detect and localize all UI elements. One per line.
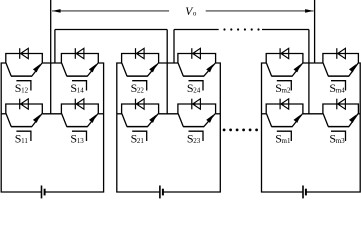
transistor of S11 (bar, collector/emitter diagonals, arrow) — [6, 114, 42, 127]
IGBT switch S21 unit frame wires — [122, 104, 159, 114]
transistor of S22 (bar, collector/emitter diagonals, arrow) — [122, 63, 159, 76]
cell 3 upper mid junction wire (phase node) — [303, 62, 323, 64]
gate lead of Sm2 — [277, 81, 292, 91]
cell 1 output node B riser wire — [54, 30, 56, 64]
IGBT switch S22 unit frame wires — [122, 54, 159, 64]
cell 3 right leg to lower-right switch stub wire — [358, 113, 360, 115]
gate lead of S11 — [16, 131, 31, 141]
cell 3 lower mid junction wire — [303, 113, 323, 115]
cell 3 output node B riser wire — [314, 0, 316, 63]
gate lead of S23 — [189, 131, 204, 141]
cell 2 output node B riser wire — [173, 30, 175, 64]
IGBT switch Sm3 unit frame wires — [323, 104, 359, 114]
anti-parallel diode of S21 — [136, 99, 145, 110]
cell 3 left leg to lower-left switch stub wire — [262, 113, 267, 115]
gate lead of S13 — [72, 131, 87, 141]
cell 2 lower mid junction wire — [159, 113, 178, 115]
battery of cell 2: short negative plate — [162, 189, 164, 196]
battery of cell 3: short negative plate — [305, 189, 307, 196]
transistor of Sm4 (bar, collector/emitter diagonals, arrow) — [323, 63, 358, 76]
transistor of S13 (bar, collector/emitter diagonals, arrow) — [62, 114, 99, 127]
transistor of S14 (bar, collector/emitter diagonals, arrow) — [62, 63, 99, 76]
transistor of Sm1 (bar, collector/emitter diagonals, arrow) — [266, 114, 302, 127]
cell 2 left leg to lower-left switch stub wire — [117, 113, 122, 115]
gate lead of S12 — [16, 81, 31, 91]
Vo dimension line right segment — [206, 10, 314, 12]
gate lead of Sm1 — [277, 131, 292, 141]
svg-text:o: o — [193, 10, 197, 18]
series link wire: cell 1 node B to cell 2 node A — [55, 29, 167, 31]
series link wire: solid part entering cell m node A — [262, 29, 309, 31]
gate lead of S24 — [189, 81, 204, 91]
cell 1 upper mid junction wire (phase node) — [42, 62, 61, 64]
dimension line right arrowhead — [305, 9, 314, 13]
gate lead of Sm3 — [331, 131, 346, 141]
svg-text:m3: m3 — [336, 137, 345, 145]
battery (DC source) of cell 1: long positive plate — [41, 186, 43, 199]
dotted continuation between cell 2 and cell m (middle row) — [223, 129, 258, 132]
cell 3 output node A riser wire — [308, 30, 310, 114]
Vo dimension line left segment — [52, 10, 169, 12]
dotted continuation of series link wire — [223, 28, 259, 30]
gate lead of Sm4 — [331, 81, 346, 91]
svg-text:11: 11 — [21, 137, 28, 145]
transistor of Sm2 (bar, collector/emitter diagonals, arrow) — [266, 63, 302, 76]
anti-parallel diode of S12 — [20, 48, 29, 59]
IGBT switch S14 unit frame wires — [61, 54, 98, 64]
cell 1 lower mid junction wire — [42, 113, 61, 115]
cell 1 output node A riser wire — [50, 0, 52, 114]
transistor of S23 (bar, collector/emitter diagonals, arrow) — [178, 114, 215, 127]
svg-text:m1: m1 — [282, 137, 291, 145]
anti-parallel diode of S24 — [192, 48, 201, 59]
cell 2 right leg to lower-right switch stub wire — [216, 113, 221, 115]
transistor of S12 (bar, collector/emitter diagonals, arrow) — [6, 63, 42, 76]
cell 2 upper mid junction wire (phase node) — [159, 62, 178, 64]
anti-parallel diode of S22 — [136, 48, 145, 59]
gate lead of S21 — [132, 131, 147, 141]
battery (DC source) of cell 2: long positive plate — [159, 186, 161, 199]
svg-text:12: 12 — [21, 87, 29, 95]
gate lead of S22 — [132, 81, 147, 91]
H-bridge cell 2: left DC leg wire — [117, 63, 160, 192]
anti-parallel diode of S13 — [75, 99, 84, 110]
transistor of Sm3 (bar, collector/emitter diagonals, arrow) — [323, 114, 358, 127]
gate lead of S14 — [72, 81, 87, 91]
cell 2 output node A riser wire — [166, 30, 168, 114]
IGBT switch S11 unit frame wires — [6, 104, 43, 114]
svg-text:23: 23 — [193, 137, 201, 145]
cell 1 right DC leg wire — [45, 63, 104, 192]
IGBT switch S24 unit frame wires — [178, 54, 216, 64]
anti-parallel diode of Sm3 — [337, 99, 346, 110]
transistor of S24 (bar, collector/emitter diagonals, arrow) — [178, 63, 215, 76]
anti-parallel diode of Sm4 — [337, 48, 346, 59]
svg-text:24: 24 — [193, 87, 201, 95]
H-bridge cell 3: left DC leg wire — [262, 63, 304, 192]
svg-text:14: 14 — [77, 87, 85, 95]
svg-text:m2: m2 — [282, 87, 291, 95]
anti-parallel diode of Sm2 — [280, 48, 289, 59]
anti-parallel diode of S11 — [20, 99, 29, 110]
svg-text:22: 22 — [137, 87, 145, 95]
anti-parallel diode of Sm1 — [280, 99, 289, 110]
IGBT switch Sm4 unit frame wires — [323, 54, 359, 64]
IGBT switch S12 unit frame wires — [6, 54, 43, 64]
cell 1 left leg to lower-left switch stub wire — [1, 113, 6, 115]
dimension line for output voltage Vo: left arrowhead — [52, 9, 61, 13]
svg-text:21: 21 — [137, 137, 145, 145]
anti-parallel diode of S14 — [75, 48, 84, 59]
IGBT switch Sm1 unit frame wires — [266, 104, 303, 114]
battery (DC source) of cell 3: long positive plate — [302, 186, 304, 199]
cell 1 right leg to lower-right switch stub wire — [98, 113, 103, 115]
battery of cell 1: short negative plate — [44, 189, 46, 196]
anti-parallel diode of S23 — [192, 99, 201, 110]
svg-text:13: 13 — [77, 137, 85, 145]
series link wire: cell 2 node B toward cell m (left solid part) — [174, 29, 219, 31]
cell 3 right DC leg wire — [306, 63, 360, 192]
svg-text:m4: m4 — [336, 87, 345, 95]
H-bridge cell 1: left DC leg wire — [1, 63, 41, 192]
IGBT switch S13 unit frame wires — [61, 104, 98, 114]
cell 2 right DC leg wire — [163, 63, 220, 192]
transistor of S21 (bar, collector/emitter diagonals, arrow) — [122, 114, 159, 127]
IGBT switch S23 unit frame wires — [178, 104, 216, 114]
IGBT switch Sm2 unit frame wires — [266, 54, 303, 64]
